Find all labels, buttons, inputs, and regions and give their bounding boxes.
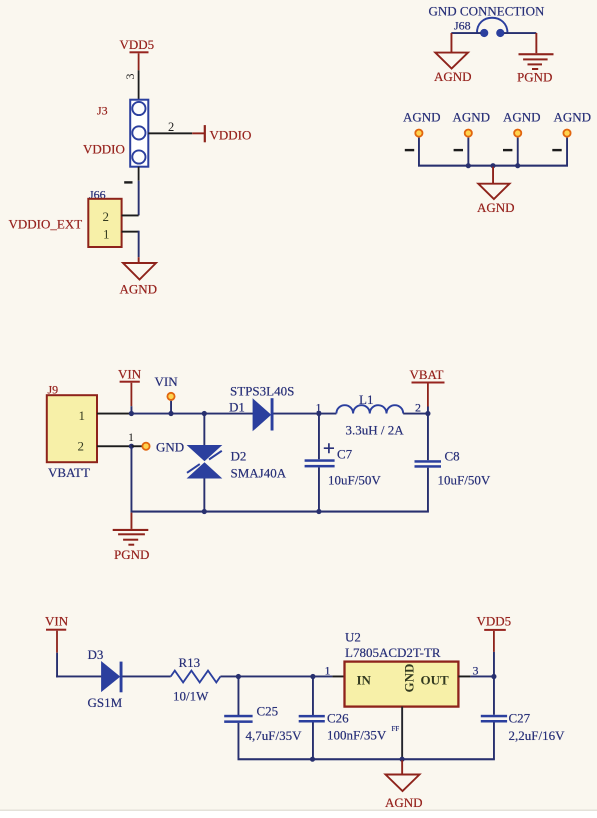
power port VDD5 (bottom) bbox=[477, 614, 512, 631]
capacitor C26 branch wire bbox=[312, 678, 314, 716]
junction (rail, GND pin) bbox=[400, 757, 405, 762]
svg-text:SMAJ40A: SMAJ40A bbox=[231, 466, 287, 481]
capacitor C8 labels bbox=[438, 449, 491, 488]
svg-text:1: 1 bbox=[325, 664, 331, 678]
svg-text:IN: IN bbox=[357, 673, 372, 688]
junction (bus, center tap) bbox=[490, 163, 495, 168]
svg-text:PGND: PGND bbox=[517, 70, 552, 85]
svg-text:GS1M: GS1M bbox=[88, 695, 123, 710]
testpoint pad 1 bbox=[415, 130, 422, 137]
svg-text:1: 1 bbox=[128, 430, 134, 444]
wire VIN testpoint down bbox=[170, 401, 172, 414]
svg-text:AGND: AGND bbox=[385, 795, 423, 810]
svg-text:D2: D2 bbox=[231, 449, 247, 464]
svg-text:GND: GND bbox=[156, 440, 184, 455]
wire bottom rail (middle) bbox=[131, 511, 429, 513]
wire bottom rail (lower) bbox=[238, 758, 495, 760]
pin number 1 of GND testpoint bbox=[128, 430, 134, 444]
svg-text:AGND: AGND bbox=[453, 110, 491, 125]
junction (R13, C25) bbox=[236, 674, 241, 679]
svg-text:AGND: AGND bbox=[120, 282, 158, 297]
net label VDDIO bbox=[204, 125, 252, 142]
svg-text:FF: FF bbox=[392, 725, 400, 733]
wire VDD5 down bbox=[493, 631, 495, 677]
testpoint pad 3 bbox=[514, 130, 521, 137]
resistor R13 value bbox=[173, 689, 209, 704]
svg-text:2: 2 bbox=[415, 401, 421, 415]
wire main to D2 bbox=[203, 414, 205, 446]
capacitor C26 bbox=[299, 715, 325, 759]
capacitor C27 labels bbox=[509, 711, 566, 744]
jumper J68 bbox=[477, 18, 508, 37]
wire J3 pin 2 to VDDIO net bbox=[148, 132, 204, 134]
svg-text:VDDIO: VDDIO bbox=[210, 128, 252, 143]
capacitor C8 bbox=[415, 460, 442, 511]
connector J9 designator bbox=[48, 383, 59, 397]
svg-text:VDDIO_EXT: VDDIO_EXT bbox=[9, 217, 83, 232]
inductor L1 designator bbox=[359, 392, 373, 407]
diode D3 value GS1M bbox=[88, 695, 123, 710]
pin number 3 of J3 bbox=[123, 74, 137, 80]
wire rail to PGND bbox=[131, 513, 133, 529]
net label AGND (testpoint 2) bbox=[453, 110, 491, 125]
wire to GND testpoint bbox=[131, 445, 142, 447]
svg-text:AGND: AGND bbox=[434, 69, 472, 84]
svg-text:3.3uH / 2A: 3.3uH / 2A bbox=[346, 423, 405, 438]
svg-text:GND CONNECTION: GND CONNECTION bbox=[429, 4, 546, 19]
ground AGND (below J66) bbox=[120, 263, 158, 297]
svg-text:D1: D1 bbox=[229, 400, 245, 415]
pin number 1 of U2 bbox=[325, 664, 331, 678]
diode D2 labels bbox=[231, 449, 287, 481]
wire D2 to rail bbox=[203, 479, 205, 513]
svg-text:J3: J3 bbox=[97, 104, 108, 118]
svg-text:1: 1 bbox=[79, 408, 86, 423]
capacitor C25 branch wire bbox=[238, 677, 240, 716]
svg-text:C27: C27 bbox=[509, 711, 531, 726]
wire U2 GND pin down bbox=[401, 707, 403, 760]
capacitor C25 labels bbox=[246, 704, 303, 744]
svg-text:2: 2 bbox=[103, 209, 110, 224]
testpoint GND pad bbox=[142, 443, 149, 450]
pin number 1 of J3 bbox=[124, 181, 132, 183]
connector J66 designator bbox=[89, 188, 106, 202]
junction (C7, L1) bbox=[316, 411, 321, 416]
connector J66 VDDIO_EXT label bbox=[9, 217, 83, 232]
testpoint GND label bbox=[156, 440, 184, 455]
svg-text:3: 3 bbox=[123, 74, 137, 80]
testpoint pad 2 bbox=[465, 130, 472, 137]
junction (pin3, VDD5, C27) bbox=[491, 674, 496, 679]
wire D3 to R13 bbox=[123, 676, 171, 678]
power port VIN (middle) bbox=[118, 367, 142, 383]
svg-text:VBATT: VBATT bbox=[48, 465, 90, 480]
wire pin2 down to rail bbox=[131, 446, 133, 512]
svg-text:2,2uF/16V: 2,2uF/16V bbox=[509, 728, 566, 743]
regulator U2 part number bbox=[345, 645, 441, 660]
capacitor C25 bbox=[224, 715, 252, 760]
TVS diode D2 bbox=[187, 445, 223, 479]
testpoint VIN pad bbox=[167, 393, 174, 400]
capacitor C27 branch wire bbox=[493, 677, 495, 715]
inductor L1 value bbox=[346, 423, 405, 438]
svg-text:U2: U2 bbox=[345, 630, 361, 645]
diode D1 STPS3L40S labels bbox=[229, 384, 294, 415]
svg-text:VDD5: VDD5 bbox=[120, 37, 155, 52]
svg-text:C8: C8 bbox=[445, 449, 460, 464]
connector J3 designator bbox=[97, 104, 108, 118]
pin number 2 of L1 bbox=[415, 401, 421, 415]
resistor R13 bbox=[171, 671, 221, 683]
wire AGND bus bbox=[418, 165, 568, 167]
svg-text:2: 2 bbox=[168, 120, 174, 134]
svg-text:100nF/35V: 100nF/35V bbox=[327, 728, 387, 743]
svg-text:10uF/50V: 10uF/50V bbox=[438, 473, 491, 488]
pin dash 4 bbox=[552, 149, 561, 151]
junction (bus, tp3) bbox=[515, 163, 520, 168]
svg-text:AGND: AGND bbox=[477, 200, 515, 215]
pin dash 2 bbox=[454, 149, 463, 151]
wire bus to AGND bbox=[492, 167, 494, 183]
wire rail to AGND bbox=[401, 760, 403, 774]
diode D1 bbox=[253, 398, 273, 430]
wire testpoint 1 down bbox=[418, 138, 420, 166]
wire VIN down and right bbox=[56, 631, 102, 678]
svg-text:C25: C25 bbox=[257, 704, 279, 719]
regulator U2 body bbox=[345, 662, 459, 707]
svg-text:10/1W: 10/1W bbox=[173, 689, 209, 704]
wire D1 to node 1 bbox=[274, 413, 319, 415]
capacitor C7 branch wire bbox=[318, 414, 320, 460]
wire testpoint 2 down bbox=[467, 138, 469, 166]
svg-text:2: 2 bbox=[78, 439, 85, 454]
svg-text:R13: R13 bbox=[179, 655, 201, 670]
wire main rail to D1 bbox=[131, 413, 253, 415]
wire testpoint 4 down bbox=[566, 138, 568, 166]
wire R13 to node bbox=[220, 676, 238, 678]
junction (C26 branch) bbox=[310, 674, 315, 679]
junction (rail, C7) bbox=[316, 509, 321, 514]
pin dash 1 bbox=[405, 149, 414, 151]
svg-text:PGND: PGND bbox=[114, 547, 149, 562]
svg-text:VDDIO: VDDIO bbox=[83, 142, 125, 157]
connector J3 VDDIO label bbox=[83, 142, 125, 157]
ground AGND (under J68) bbox=[434, 53, 472, 84]
svg-text:AGND: AGND bbox=[503, 110, 541, 125]
svg-text:STPS3L40S: STPS3L40S bbox=[230, 384, 294, 399]
pin dash 3 bbox=[503, 149, 512, 151]
resistor R13 designator bbox=[179, 655, 201, 670]
junction (VIN, pin1) bbox=[129, 411, 134, 416]
connector J9 VBATT label bbox=[48, 465, 90, 480]
ground PGND (middle) bbox=[113, 529, 150, 562]
junction (D2 branch) bbox=[202, 411, 207, 416]
svg-text:GND: GND bbox=[401, 664, 416, 693]
capacitor C26 labels bbox=[327, 711, 399, 743]
jumper J68 designator bbox=[454, 19, 471, 33]
svg-text:VIN: VIN bbox=[45, 614, 69, 629]
junction (rail, D2) bbox=[202, 509, 207, 514]
ground AGND (bus) bbox=[477, 184, 515, 215]
svg-text:AGND: AGND bbox=[554, 110, 592, 125]
testpoint pad 4 bbox=[563, 130, 570, 137]
capacitor C7 bbox=[305, 459, 335, 511]
svg-text:1: 1 bbox=[103, 227, 110, 242]
connector J9 body bbox=[47, 395, 97, 462]
junction (testpoint VIN) bbox=[168, 411, 173, 416]
junction (VBAT, L1, C8) bbox=[425, 411, 430, 416]
wire J9 pin 1 bbox=[97, 413, 131, 415]
regulator U2 designator bbox=[345, 630, 361, 645]
wire J68 right to PGND bbox=[504, 32, 537, 53]
wire J66 pin 2 stub bbox=[122, 215, 139, 217]
svg-text:AGND: AGND bbox=[403, 110, 441, 125]
ground AGND (bottom) bbox=[385, 775, 423, 811]
diode D3 bbox=[102, 662, 123, 693]
power port VDD5 (top-left) bbox=[120, 37, 155, 53]
capacitor C7 labels bbox=[328, 447, 381, 488]
svg-text:VIN: VIN bbox=[118, 367, 142, 382]
net label AGND (testpoint 4) bbox=[554, 110, 592, 125]
wire J66 pin 1 to AGND bbox=[122, 231, 140, 263]
connector J66 body bbox=[88, 199, 121, 247]
capacitor C8 branch wire bbox=[427, 414, 429, 461]
wire J9 pin 2 bbox=[97, 445, 131, 447]
wire VBAT down bbox=[427, 384, 429, 414]
svg-text:10uF/50V: 10uF/50V bbox=[328, 473, 381, 488]
testpoint VIN label bbox=[155, 374, 179, 389]
capacitor C27 bbox=[481, 715, 507, 759]
svg-text:L7805ACD2T-TR: L7805ACD2T-TR bbox=[345, 645, 441, 660]
junction (bus, tp2) bbox=[466, 163, 471, 168]
svg-text:VBAT: VBAT bbox=[410, 367, 444, 382]
pin number 3 of U2 bbox=[473, 664, 479, 678]
diode D3 designator bbox=[88, 647, 104, 662]
junction (rail, C26) bbox=[310, 757, 315, 762]
net label AGND (testpoint 3) bbox=[503, 110, 541, 125]
wire U2 pin 3 to node bbox=[458, 676, 494, 678]
inductor L1 bbox=[319, 405, 428, 414]
wire VIN to main bbox=[131, 383, 133, 414]
wire testpoint 3 down bbox=[517, 138, 519, 166]
wire VDD5 to J3 pin 3 bbox=[138, 53, 140, 100]
pin number 1 of L1 bbox=[316, 401, 322, 415]
power port VBAT bbox=[410, 367, 445, 384]
net label AGND (testpoint 1) bbox=[403, 110, 441, 125]
label GND CONNECTION bbox=[429, 4, 546, 19]
wire J68 left to AGND bbox=[451, 32, 481, 52]
svg-text:C7: C7 bbox=[337, 447, 353, 462]
power port VIN (bottom) bbox=[45, 614, 69, 631]
pin number 2 of J3 bbox=[168, 120, 174, 134]
svg-text:D3: D3 bbox=[88, 647, 104, 662]
svg-text:3: 3 bbox=[473, 664, 479, 678]
capacitor C7 plus sign bbox=[324, 443, 334, 453]
svg-text:4,7uF/35V: 4,7uF/35V bbox=[246, 728, 303, 743]
ground PGND (under J68) bbox=[517, 53, 554, 84]
svg-text:J68: J68 bbox=[454, 19, 471, 33]
svg-text:C26: C26 bbox=[327, 711, 349, 726]
wire J3 pin 1 down to J66 bbox=[138, 167, 140, 216]
wire node to U2 pin 1 bbox=[238, 676, 344, 678]
svg-text:OUT: OUT bbox=[421, 673, 450, 688]
connector J3 body bbox=[130, 100, 148, 167]
svg-text:VIN: VIN bbox=[155, 374, 179, 389]
svg-text:VDD5: VDD5 bbox=[477, 614, 512, 629]
junction (pin2, GND tp) bbox=[129, 444, 134, 449]
